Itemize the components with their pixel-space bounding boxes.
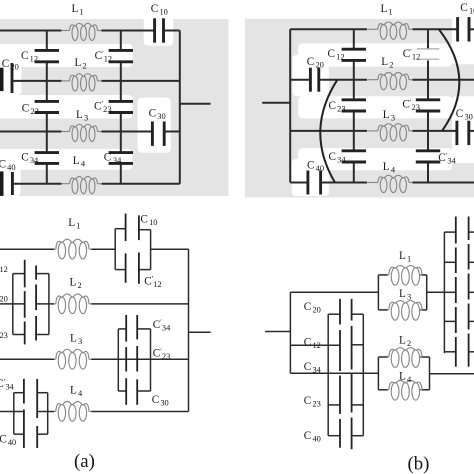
white band row C34 (0, 149, 133, 170)
inductor L3 (top-left) (61, 124, 102, 141)
wire row3 to C30 (top-right) (413, 130, 457, 132)
stack plate line2 seg C23 (a) (35, 316, 37, 341)
white box around C10 top-right (452, 8, 474, 64)
L4 branch wire (b) (378, 389, 388, 391)
wire L1/L3 box to right stack (b) (427, 291, 444, 293)
C20 branch wire top (b) (290, 291, 378, 293)
wire C30 to edge (top-right) (469, 130, 474, 132)
capacitor C40 (top-left) edge plate (0, 171, 4, 196)
capacitor C20 (top-left) edge plate (0, 68, 4, 91)
white band row C12 top-right (298, 43, 452, 66)
input stub (b) (265, 331, 290, 333)
L1/L3 box left bracket (b) (377, 275, 379, 310)
capacitor C23 (top-left) (35, 100, 59, 103)
wire row1 to C10 (102, 30, 155, 32)
left stack bracket-left arms (b) (328, 313, 340, 315)
wire row1 (top-right) (290, 28, 367, 30)
inductor L1 (top-left) (61, 23, 102, 40)
right stack plate line1 (b) (455, 217, 457, 244)
wire row3 left segment (0, 131, 62, 133)
combo right bracket (a) (150, 329, 152, 391)
stack plate line2 seg C40 (a) (36, 426, 38, 448)
capacitor C40 (top-left) inner plate (11, 172, 14, 195)
combo C'34/C'23/C30 left bracket (a) (117, 329, 119, 391)
stack plate line1 seg C12 (a) (24, 260, 26, 288)
capacitor C40 (top-right) (306, 171, 309, 195)
capacitor C30 (top-right) (455, 121, 458, 145)
capacitor C20 (top-left) inner plate (11, 63, 14, 93)
white band row C34 top-right (298, 148, 452, 170)
wire row4 right segment (102, 183, 180, 185)
C12 branch wire (b) (290, 344, 340, 346)
L2/L4 box right bracket (b) (429, 357, 431, 390)
wire combo to bus (a) (151, 248, 189, 250)
white box around C40 top-right (292, 159, 329, 196)
capacitor C'23 (top-left) (109, 100, 133, 103)
inductor L4 (top-left) (61, 177, 102, 194)
inductor L4 (top-right) (368, 175, 413, 192)
wire row4 to edge (top-right) (413, 182, 474, 184)
inductor L1 (a) (54, 239, 92, 259)
stack plate line2 seg C12 (a) (35, 266, 37, 280)
L2 branch wire (b) (378, 356, 388, 358)
right stack bracket arms (b) (444, 231, 455, 233)
white box around C20 top-right (293, 55, 329, 96)
combo plate line1 seg C'23 (a) (125, 347, 127, 371)
wire row3 to C30 (102, 131, 153, 133)
stack plate line2 seg C'34 (a) (36, 379, 38, 418)
wire row4 left (a) (0, 411, 24, 413)
left stack bracket-left vertical (b) (327, 314, 329, 436)
output stub (a) (189, 331, 211, 333)
wire row2 stack to L2 (a) (36, 303, 54, 305)
wire row3 left (a) (0, 358, 54, 360)
shaded background top-left circuit (0, 19, 229, 196)
left stack plate line2 (b) (351, 299, 353, 321)
white box around C40 (0, 158, 21, 196)
wire row2 to edge (top-right) (413, 79, 474, 81)
parallel capacitor combo C10/C'12 left bracket (a) (114, 229, 116, 270)
white box around C20 (0, 56, 21, 95)
white band row C23 (0, 95, 133, 119)
capacitor C'12 (top-left) (109, 49, 133, 52)
stack C'34/C40 left bracket (a) (13, 393, 15, 435)
capacitor C20 (top-right) (309, 68, 312, 92)
right bus vertical (a) (188, 249, 190, 411)
inductor L3 (top-right) (368, 124, 413, 141)
capacitor C23 (top-right) (342, 98, 366, 101)
left stack bracket-right vertical (b) (362, 314, 364, 436)
stack plate line1 seg C20 (a) (24, 291, 26, 318)
left stack plate line1 (b) (339, 299, 341, 325)
wire row2 left (a) (0, 303, 25, 305)
inductor L3 (a) (54, 349, 92, 369)
wire row2 (12, 80, 62, 82)
right capacitor chain vertical (top-left) (120, 31, 122, 51)
wire row2 (top-right) (290, 79, 310, 81)
stack plate line1 seg C'34 (a) (23, 379, 25, 404)
capacitor C'23 (top-right) (416, 98, 440, 101)
wire row3 (top-right) (290, 130, 367, 132)
wire row4 (12, 183, 61, 185)
capacitor C12 (top-left) (35, 49, 59, 52)
capacitor C'34 (top-right) (416, 149, 440, 152)
left stack bracket-right arms (b) (352, 313, 364, 315)
capacitor C'12 (top-right, light plates) (417, 48, 440, 50)
svg-text:(a): (a) (74, 451, 95, 472)
white band row C23 top-right (298, 96, 452, 118)
output stub (top-left) (180, 103, 211, 105)
wire row4 to bus (a) (91, 411, 188, 413)
stack right bracket (a) (47, 393, 49, 435)
white box around C10 (144, 14, 174, 46)
white box around C30 top-right (452, 96, 474, 163)
inductor L1 (b) (387, 266, 422, 286)
capacitor C34 (top-right) (342, 149, 366, 152)
left capacitor chain vertical (top-left) (46, 31, 48, 51)
inductor L4 (a) (54, 402, 92, 422)
combo plate line2 seg C'34 (a) (136, 315, 138, 339)
stack plate line1 seg C23 (a) (24, 322, 26, 345)
white band row C12 (0, 44, 133, 67)
capacitor C30 (top-left) (151, 122, 154, 146)
inductor L3 (b) (387, 301, 422, 321)
capacitor C12 (top-right) (342, 48, 366, 51)
wire row1 to C10 (top-right) (413, 28, 458, 30)
stack right bracket (a) (48, 274, 50, 335)
cross-coupling arc row1-row3 (top-right) (439, 29, 460, 131)
left capacitor chain vertical (top-right) (353, 29, 355, 49)
wire row3 through combo to bus (a) (91, 358, 188, 360)
combo right bracket (a) (150, 230, 152, 270)
capacitor C10 plate line1 (a) (125, 214, 127, 242)
capacitor C'34 (top-left) (109, 151, 133, 154)
input stub (top-right) (262, 102, 290, 104)
right capacitor chain vertical (top-right) (427, 29, 429, 49)
combo plate line1 seg C'34 (a) (125, 315, 127, 342)
inductor L1 (top-right) (368, 22, 413, 39)
wire L1 to C10 combo (a) (91, 248, 115, 250)
stack plate line2 seg C20 (a) (35, 285, 37, 311)
cross-coupling arc row2-row4 (top-right) (320, 80, 337, 183)
combo plate line1 seg C30 (a) (125, 378, 127, 405)
right stack bracket vertical (b) (443, 232, 445, 353)
shaded background top-right circuit (245, 19, 474, 198)
wire C10 to bus (164, 30, 180, 32)
inductor L4 (b) (387, 381, 422, 401)
capacitor C'12 plate line2 (a) (138, 253, 140, 284)
wire row1 left segment (0, 30, 62, 32)
right stack plate line2 (b) (468, 217, 470, 241)
inductor L2 (b) (387, 348, 422, 368)
input bracket vertical (b) (289, 292, 291, 373)
combo plate line2 seg C'23 (a) (136, 346, 138, 372)
stack plate line1 seg C40 (a) (23, 410, 25, 449)
L1/L3 box right bracket (b) (426, 275, 428, 310)
L1 branch wire (b) (378, 274, 388, 276)
C34 branch wire (b) (290, 372, 378, 374)
capacitor C10 (top-left) (153, 18, 156, 42)
L3 branch wire (b) (378, 309, 388, 311)
L2/L4 box left bracket (b) (377, 357, 379, 390)
white box around C30 (138, 98, 171, 153)
inductor L2 (top-right) (368, 73, 413, 90)
wire row4 stack to L4 (a) (37, 411, 54, 413)
combo plate line2 seg C30 (a) (136, 379, 138, 405)
inductor L2 (top-left) (61, 74, 102, 91)
wire row1 (a) (0, 248, 54, 250)
capacitor C'12 plate line1 (a) (125, 253, 127, 282)
wire row2 to bus (a) (91, 303, 188, 305)
output bus vertical (top-left) (179, 31, 181, 184)
output wire L2/L4 to edge (b) (430, 373, 474, 375)
capacitor C10 plate line2 (a) (138, 215, 140, 240)
right stack right-side arm stubs (b) (469, 231, 474, 233)
svg-text:(b): (b) (408, 453, 430, 474)
wire row2 right segment (102, 80, 180, 82)
inductor L2 (a) (54, 294, 92, 314)
wire row4 (top-right) (290, 182, 308, 184)
wire C10 to edge (top-right) (469, 28, 474, 30)
capacitor C34 (top-left) (35, 151, 59, 154)
stack C12/C20/C23 left bracket (a) (12, 274, 14, 335)
wire C30 to bus (164, 131, 180, 133)
capacitor C10 (top-right) (456, 17, 459, 41)
input bus vertical (top-right) (289, 29, 291, 182)
